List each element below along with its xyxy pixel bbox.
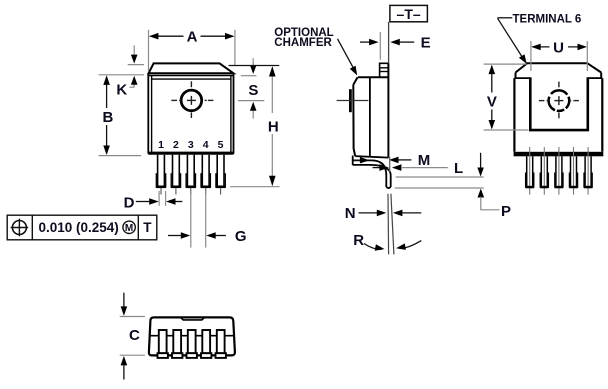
lead tip extension line (upper) (396, 176, 484, 178)
svg-text:D: D (124, 195, 135, 212)
back lead 3 (555, 147, 563, 195)
bottom lead 3 (187, 330, 197, 358)
dimension E (360, 41, 370, 43)
side view back edge (datum T face) (387, 63, 389, 157)
svg-text:5: 5 (218, 139, 224, 151)
svg-text:3: 3 (188, 139, 194, 151)
front view body outer right edge (233, 73, 235, 154)
back view shoulder steps (514, 77, 530, 79)
svg-text:E: E (421, 35, 431, 52)
svg-text:C: C (129, 327, 140, 344)
back lead 5 (584, 147, 592, 195)
svg-text:H: H (268, 118, 279, 135)
bottom view outline (149, 317, 235, 355)
dimension C (123, 293, 125, 308)
front view hole crosshair (171, 81, 213, 118)
front pin 3 (186, 155, 195, 195)
dimension G (168, 235, 226, 237)
svg-text:CHAMFER: CHAMFER (274, 37, 332, 49)
svg-text:G: G (235, 228, 247, 245)
svg-text:0.010 (0.254): 0.010 (0.254) (39, 220, 119, 235)
side view tab top rect (380, 63, 389, 77)
terminal 6 leader (498, 17, 513, 19)
bottom lead 5 (216, 330, 226, 358)
M circle (123, 221, 135, 233)
dimension V extension lines (484, 64, 529, 130)
svg-text:S: S (248, 82, 258, 99)
svg-text:4: 4 (203, 139, 209, 151)
L/P bracket: upper down-arrow (480, 153, 482, 168)
back lead 2 (540, 147, 548, 195)
svg-text:P: P (501, 203, 511, 220)
back lead 4 (569, 147, 577, 195)
svg-text:–T–: –T– (397, 6, 421, 22)
svg-text:T: T (143, 220, 152, 235)
front view body inner top line (152, 78, 231, 80)
dimension V (491, 66, 493, 128)
front pin 5 (216, 155, 225, 195)
svg-text:R: R (353, 232, 364, 249)
front pin 1 (156, 155, 165, 195)
bottom lead 2 (172, 330, 182, 358)
seating extension line (lower) (395, 187, 484, 189)
svg-text:M: M (125, 223, 133, 234)
lead tip projection lines for N/R (387, 194, 390, 255)
back view tab trapezoid (516, 63, 602, 72)
svg-text:1: 1 (158, 139, 164, 151)
svg-text:B: B (102, 109, 113, 126)
dimension U (533, 46, 586, 48)
side view body top edge (358, 76, 389, 78)
svg-text:M: M (418, 152, 431, 169)
front view body inner left edge (151, 76, 153, 154)
dimension C ticks (120, 317, 145, 356)
bottom view mid line (150, 335, 234, 337)
bottom lead 4 (201, 330, 211, 358)
svg-text:U: U (553, 39, 564, 56)
bottom view top notch (181, 317, 205, 320)
front view body outer left edge (147, 73, 149, 154)
dimension E extension line (379, 32, 381, 60)
back lead 1 (526, 147, 534, 195)
dimension A (151, 35, 233, 37)
side view mid vertical line (369, 77, 371, 156)
svg-text:V: V (487, 93, 497, 110)
front view tab bottom double line (149, 75, 234, 77)
pin numbers 1-5 (158, 139, 224, 151)
back view hole (dashed circle) (549, 90, 570, 111)
optional chamfer leader (338, 39, 354, 69)
dimension B (106, 77, 108, 154)
side view bent lead (353, 156, 391, 189)
svg-text:A: A (187, 29, 198, 46)
dimension D extension lines (159, 191, 166, 206)
position symbol (12, 221, 26, 235)
back view recess (529, 77, 532, 129)
svg-text:N: N (345, 205, 356, 222)
datum T drop line (388, 22, 390, 64)
dimension H (271, 77, 273, 178)
P up-arrow and elbow (478, 189, 485, 198)
dimension L (373, 167, 381, 169)
dimension G extension lines (191, 191, 206, 248)
front view mounting hole (181, 90, 202, 111)
svg-text:K: K (116, 82, 127, 99)
datum T box (390, 5, 428, 21)
front pin 4 (201, 155, 210, 195)
dimension B extension lines (99, 75, 144, 156)
side view chamfer (353, 77, 357, 85)
side view hole edge profile (349, 89, 352, 112)
M vertical extension line (389, 157, 391, 172)
side view front edge (353, 85, 355, 156)
back view body sides (513, 78, 515, 152)
svg-text:L: L (454, 160, 463, 177)
front pin 2 (171, 155, 180, 195)
dimension M (352, 159, 361, 161)
side view bottom edge (355, 156, 388, 158)
dimension U extension lines (531, 41, 587, 71)
front view body bottom thick bar (148, 152, 233, 155)
back view hole crosshair (539, 82, 579, 119)
bottom lead 1 (158, 330, 168, 358)
dimension K (128, 45, 144, 87)
front view tab trapezoid (149, 63, 234, 73)
dimension S (238, 58, 264, 118)
svg-text:TERMINAL 6: TERMINAL 6 (513, 14, 582, 26)
dimension A extension lines (149, 30, 235, 72)
dimension H extension lines (229, 65, 280, 67)
front view body inner right edge (230, 76, 232, 154)
side view hole centerline (337, 100, 369, 102)
feature control frame (7, 215, 157, 240)
svg-text:2: 2 (173, 139, 179, 151)
back view bottom bar (514, 152, 604, 157)
